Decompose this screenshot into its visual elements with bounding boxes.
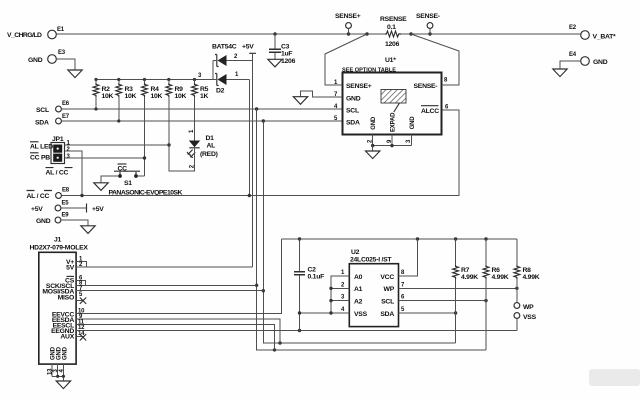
node rail-sense+ <box>347 32 350 35</box>
resistor RSENSE <box>380 16 407 48</box>
svg-text:WP: WP <box>384 286 395 293</box>
resistor R6 <box>483 239 509 350</box>
node SDA-EESDA <box>278 341 281 344</box>
svg-text:S1: S1 <box>124 180 132 187</box>
IC U1 <box>334 57 449 135</box>
svg-text:R2: R2 <box>102 86 111 93</box>
svg-text:4.99K: 4.99K <box>523 274 540 281</box>
svg-text:VSS: VSS <box>523 314 537 321</box>
node A2 <box>329 299 332 302</box>
pin numbers J1 <box>78 257 85 337</box>
node SDA-MOSI <box>262 289 265 292</box>
node bus-R9 <box>167 78 170 81</box>
wire EEVCC <box>76 239 281 314</box>
wire U2 WP <box>399 287 517 289</box>
wire JP1 pin1 <box>65 144 170 146</box>
svg-text:U1*: U1* <box>385 57 396 64</box>
svg-text:4.99K: 4.99K <box>461 274 478 281</box>
node SCL-R2 <box>94 107 97 110</box>
svg-text:D1: D1 <box>206 135 215 142</box>
svg-text:5V: 5V <box>66 265 75 272</box>
svg-text:AL / CC: AL / CC <box>46 170 69 177</box>
svg-text:R7: R7 <box>461 267 470 274</box>
node SCL-R6 <box>484 299 487 302</box>
node bus-R7 <box>454 237 457 240</box>
svg-text:VSS: VSS <box>354 311 368 318</box>
node SDA-R3 <box>117 119 120 122</box>
svg-text:1uF: 1uF <box>281 51 292 58</box>
svg-text:+5V: +5V <box>92 206 104 213</box>
node A1 <box>329 287 332 290</box>
terminal E8 <box>27 188 70 201</box>
svg-text:C2: C2 <box>308 267 317 274</box>
node U1 gnd pin9 <box>390 144 393 147</box>
ground U1 <box>372 146 374 151</box>
svg-text:E1: E1 <box>57 27 65 33</box>
svg-text:(RED): (RED) <box>200 151 218 158</box>
connector J1 <box>30 237 89 365</box>
svg-text:D2: D2 <box>216 88 225 95</box>
node SCL-SCK <box>255 284 258 287</box>
wire MOSI/SDA <box>76 290 263 292</box>
svg-text:R5: R5 <box>200 86 209 93</box>
svg-text:R9: R9 <box>175 86 184 93</box>
node bus-R5 <box>193 78 196 81</box>
node ALCC-D2 <box>248 194 251 197</box>
ground E4 <box>553 69 567 77</box>
svg-text:1K: 1K <box>200 93 209 100</box>
node rail-diag-left <box>365 32 368 35</box>
node SDA-R7 <box>454 311 457 314</box>
svg-text:14: 14 <box>78 331 85 337</box>
wire U2 SCL <box>399 300 487 302</box>
wire D1 cathode loop <box>169 145 195 171</box>
terminal SENSE- <box>416 13 440 34</box>
svg-text:R3: R3 <box>125 86 134 93</box>
svg-text:E2: E2 <box>569 25 577 31</box>
node SCL-riser <box>255 107 258 110</box>
svg-text:GND: GND <box>28 57 43 64</box>
svg-text:SENSE-: SENSE- <box>416 13 440 20</box>
power +5V tap <box>249 53 256 60</box>
wire U2 A-pins <box>300 276 350 313</box>
resistor R3 <box>116 80 137 122</box>
resistor R4 <box>142 80 163 177</box>
svg-text:E3: E3 <box>58 50 66 56</box>
svg-text:ALCC: ALCC <box>421 108 439 115</box>
svg-text:10K: 10K <box>151 93 163 100</box>
svg-text:10K: 10K <box>125 93 137 100</box>
svg-text:CC PB: CC PB <box>30 155 50 162</box>
svg-text:4.99K: 4.99K <box>492 274 509 281</box>
node pin1-R9 <box>167 143 170 146</box>
svg-text:V_BAT*: V_BAT* <box>593 34 617 41</box>
svg-text:+5V: +5V <box>31 206 43 213</box>
svg-text:SDA: SDA <box>380 311 394 318</box>
capacitor C3 <box>269 34 296 65</box>
svg-text:A0: A0 <box>354 274 363 281</box>
svg-text:U2: U2 <box>351 249 360 256</box>
svg-text:1206: 1206 <box>385 41 400 48</box>
svg-text:MISO: MISO <box>58 295 74 302</box>
svg-text:V_CHRG/LD: V_CHRG/LD <box>7 32 42 39</box>
node ALCC-jp1pin2 <box>80 194 83 197</box>
svg-text:C3: C3 <box>281 44 290 51</box>
svg-text:GND: GND <box>63 346 69 360</box>
svg-text:GND: GND <box>410 116 416 130</box>
node U1 gnd pin2 <box>371 144 374 147</box>
node gnd-C2 <box>298 329 301 332</box>
svg-text:SDA: SDA <box>346 120 360 127</box>
svg-text:E8: E8 <box>62 188 70 194</box>
svg-text:E6: E6 <box>62 101 70 107</box>
svg-text:SENSE-: SENSE- <box>414 83 438 90</box>
node bus-VCC <box>416 237 419 240</box>
node rail-sense- <box>428 32 431 35</box>
wire JP1 pin3 <box>65 157 145 159</box>
node VSS-C2 <box>298 311 301 314</box>
svg-text:SENSE+: SENSE+ <box>346 83 372 90</box>
wire top rail <box>56 33 580 35</box>
wire EESCL <box>76 325 274 350</box>
wire J1 CS <box>76 280 86 285</box>
terminal E9 <box>36 213 88 226</box>
svg-text:+5V: +5V <box>242 44 254 51</box>
svg-text:10K: 10K <box>175 93 187 100</box>
svg-text:E5: E5 <box>62 201 70 207</box>
svg-text:24LC025-I /ST: 24LC025-I /ST <box>350 257 392 264</box>
wire U2 SDA <box>399 312 456 314</box>
no-connect MISO <box>76 298 86 304</box>
svg-text:EXPAD: EXPAD <box>391 112 397 132</box>
node rail-diag-right <box>409 32 412 35</box>
svg-text:A1: A1 <box>354 286 363 293</box>
no-connect AUX <box>76 334 86 340</box>
ground S1 <box>94 183 108 191</box>
wire SCK/SCL <box>76 284 257 286</box>
LED D1 <box>187 129 217 168</box>
svg-text:AL LED: AL LED <box>30 144 53 151</box>
svg-text:AL: AL <box>207 143 216 150</box>
wire 5V riser <box>252 61 254 267</box>
svg-text:R8: R8 <box>523 267 532 274</box>
wire E3-gnd <box>56 59 75 70</box>
svg-text:HD2X7-079-MOLEX: HD2X7-079-MOLEX <box>30 245 89 252</box>
node SCL-EESCL <box>273 348 276 351</box>
node bus-R6 <box>484 237 487 240</box>
terminal E7 <box>35 114 70 127</box>
node bus-R3 <box>117 78 120 81</box>
wire VCC top bus <box>282 238 517 240</box>
ground E9 <box>81 226 95 234</box>
wire pullup bus <box>96 79 213 81</box>
svg-text:VCC: VCC <box>380 274 394 281</box>
svg-text:GND: GND <box>371 116 377 130</box>
svg-text:GND: GND <box>36 218 51 225</box>
node J1 gnd b <box>62 375 65 378</box>
ground E3 <box>68 70 82 78</box>
node WP-R8 <box>515 287 518 290</box>
resistor R2 <box>93 80 113 110</box>
svg-text:E7: E7 <box>62 114 70 120</box>
svg-text:R4: R4 <box>151 86 160 93</box>
wire SCL riser <box>257 109 486 350</box>
node pin3-R4 <box>143 156 146 159</box>
svg-text:GND: GND <box>593 59 608 66</box>
node rail-C3 <box>273 32 276 35</box>
svg-text:SENSE+: SENSE+ <box>335 13 361 20</box>
node VSS-A <box>329 311 332 314</box>
node bus-R2 <box>94 78 97 81</box>
wire 5V net <box>76 266 253 268</box>
node bus-R4 <box>143 78 146 81</box>
svg-text:E4: E4 <box>569 52 577 58</box>
wire U1 bottom pins <box>368 135 413 146</box>
wire E4-gnd <box>560 61 581 69</box>
terminal E6 <box>36 101 70 114</box>
wire U1 pin8 diag <box>411 34 459 85</box>
svg-text:AL / CC: AL / CC <box>27 193 50 200</box>
svg-text:AUX: AUX <box>60 334 74 341</box>
watermark <box>589 369 640 386</box>
resistor R9 <box>166 80 187 146</box>
svg-text:A2: A2 <box>354 299 363 306</box>
terminal E3 <box>28 50 66 64</box>
capacitor C2 <box>294 239 324 331</box>
svg-text:SCL: SCL <box>346 108 359 115</box>
connector JP1 <box>30 136 73 177</box>
terminal WP <box>514 303 534 311</box>
resistor R7 <box>453 239 479 343</box>
terminal SENSE+ <box>335 13 361 34</box>
wire J1 bottom gnd pins <box>47 364 65 380</box>
wire EEGND gnd net <box>76 330 517 332</box>
wire SDA riser <box>263 121 455 343</box>
node bus-C2 <box>298 237 301 240</box>
resistor R8 <box>514 239 540 303</box>
node J1 gnd a <box>56 375 59 378</box>
resistor R5 <box>192 80 209 141</box>
svg-text:SCL: SCL <box>36 107 49 114</box>
svg-text:RSENSE: RSENSE <box>380 16 407 23</box>
svg-text:BAT54C: BAT54C <box>212 44 237 51</box>
diode D2 BAT54C <box>198 44 254 95</box>
wire EESDA <box>76 319 280 343</box>
svg-text:J1: J1 <box>54 237 62 244</box>
node SDA-riser <box>262 119 265 122</box>
IC U2 <box>341 249 405 327</box>
wire SCL <box>61 108 342 110</box>
svg-text:E9: E9 <box>62 213 70 219</box>
wire ALCC net <box>61 110 459 196</box>
ground C3 <box>268 59 282 67</box>
terminal E1 <box>7 27 65 39</box>
wire JP1 pin2 <box>65 151 83 196</box>
switch S1 <box>101 164 183 197</box>
wire U2 VCC <box>399 239 418 276</box>
wire SDA <box>61 120 342 122</box>
wire ALCC from D2 pin1 <box>248 80 250 196</box>
svg-text:R6: R6 <box>492 267 501 274</box>
terminal E4 <box>569 52 608 66</box>
wire J1 pin1 <box>76 262 86 267</box>
svg-text:SCL: SCL <box>381 299 394 306</box>
ground J1 <box>56 381 70 389</box>
ground U1 pin7 <box>301 91 343 97</box>
terminal VSS <box>514 313 537 331</box>
svg-text:SDA: SDA <box>35 120 49 127</box>
svg-text:GND: GND <box>346 96 361 103</box>
terminal E5 <box>31 201 104 214</box>
svg-text:10K: 10K <box>102 93 114 100</box>
svg-text:WP: WP <box>523 304 534 311</box>
wire U1 pin1 diag <box>325 34 367 85</box>
svg-text:0.1uF: 0.1uF <box>308 274 325 281</box>
terminal E2 <box>569 25 616 41</box>
